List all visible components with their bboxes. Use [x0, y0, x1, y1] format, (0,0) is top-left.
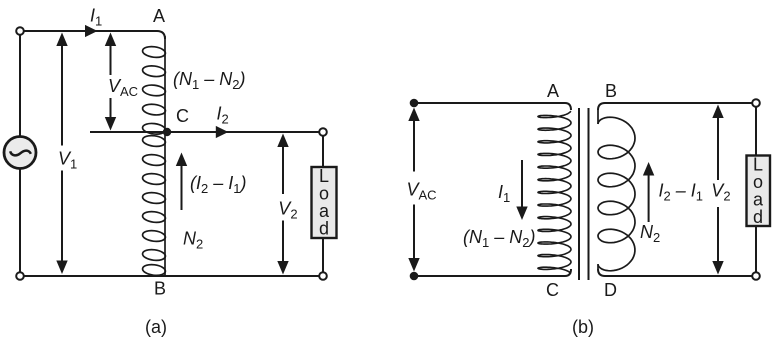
svg-text:B: B: [154, 279, 166, 299]
junction dot bottom-left (b): [410, 272, 419, 281]
current arrow I1: [85, 25, 98, 37]
current arrow (I2-I1) (a): [181, 160, 183, 210]
voltage arrow V1: [61, 40, 63, 146]
svg-text:d: d: [319, 219, 329, 239]
terminal bottom-right (a): [319, 272, 327, 280]
junction dot top-left (b): [410, 99, 419, 108]
svg-text:A: A: [153, 6, 165, 26]
wire left upper (a) terminal to source: [19, 35, 21, 136]
wire I2 from tap C to right terminal (a): [171, 131, 319, 133]
svg-text:D: D: [604, 280, 617, 300]
voltage arrow VAC (a): [110, 40, 112, 75]
wire load lower (a): [322, 238, 324, 272]
terminal bottom-right (b): [752, 272, 760, 280]
current arrow I2-I1 (b): [648, 170, 650, 222]
svg-text:A: A: [547, 81, 559, 101]
voltage arrow V2 (b): [717, 112, 719, 180]
load resistor (b): [747, 155, 771, 228]
wire bottom-right (b): [598, 269, 752, 276]
load resistor (a): [312, 166, 337, 239]
terminal bottom-left (a): [16, 272, 24, 280]
voltage arrow V2 (a): [282, 141, 284, 194]
voltage arrow VAC (b): [413, 119, 415, 172]
junction dot C (a): [163, 128, 171, 136]
wire bottom-left (b): [418, 269, 571, 276]
wire load lower (b): [755, 226, 757, 272]
current arrow I1 (b): [521, 160, 523, 208]
transformer core lines: [579, 108, 589, 280]
terminal top-left (a): [16, 27, 24, 35]
svg-text:B: B: [605, 81, 617, 101]
svg-text:(b): (b): [572, 317, 594, 337]
svg-text:C: C: [176, 106, 189, 126]
terminal top-right (a): [319, 128, 327, 136]
wire load upper (b): [755, 107, 757, 156]
svg-text:(a): (a): [145, 317, 167, 337]
secondary winding N2 coil (b): [598, 110, 635, 271]
wire left lower (a) source to bottom terminal: [19, 169, 21, 272]
wire bottom (a): [24, 275, 319, 277]
current arrow I2 (a): [216, 126, 229, 138]
wire top (a) from terminal to coil A: [24, 31, 165, 39]
wire load upper (a): [322, 136, 324, 167]
tap stub wire at C (a): [90, 131, 165, 133]
wire top-right (b): [598, 103, 752, 110]
terminal top-right (b): [752, 99, 760, 107]
svg-text:d: d: [753, 207, 763, 227]
svg-text:C: C: [546, 280, 559, 300]
autotransformer coil (a): [142, 36, 166, 277]
wire top-left (b): [418, 103, 571, 110]
AC source V1: [4, 137, 36, 169]
primary winding (N1-N2) coil (b): [538, 111, 571, 274]
